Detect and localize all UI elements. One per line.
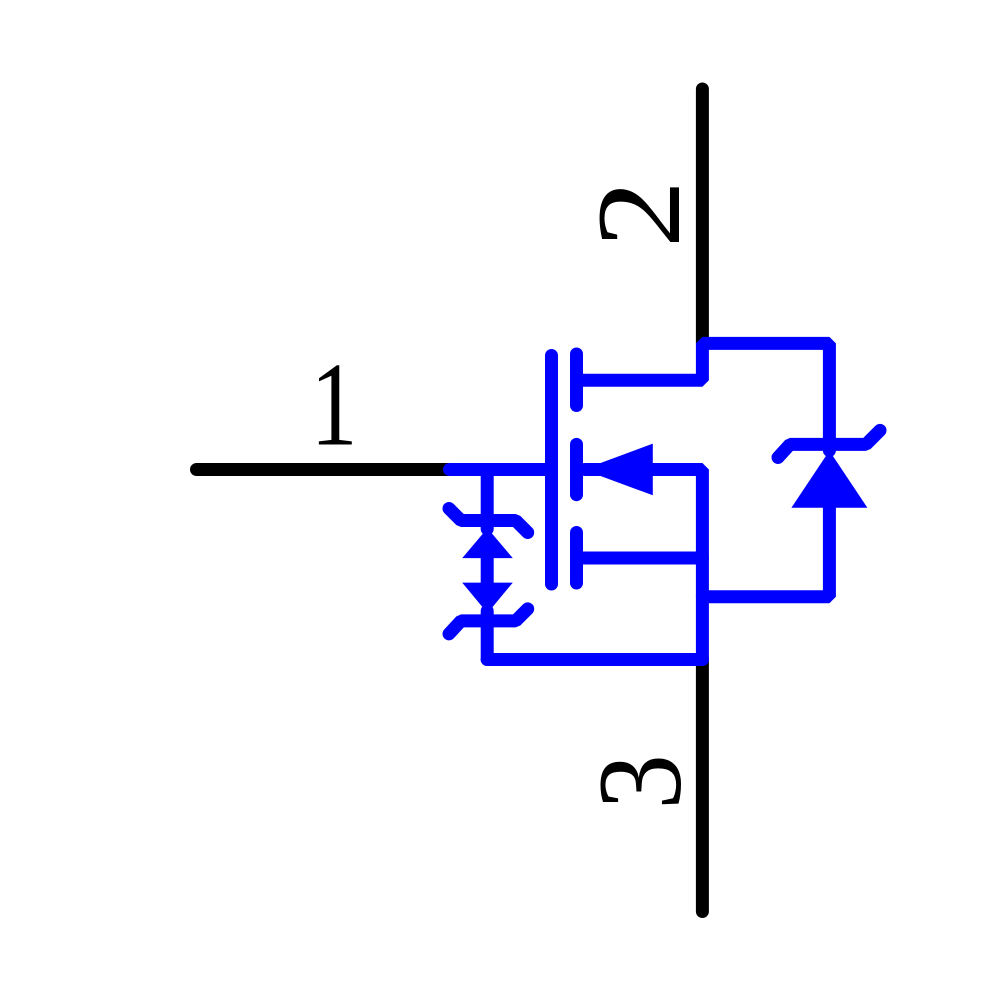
zener D2 anode triangle (points up)	[462, 528, 513, 558]
pin 1 wire (gate lead, black)	[197, 463, 453, 476]
svg-text:1: 1	[311, 339, 358, 472]
wire: gate tap down to upper protection zener	[481, 470, 494, 530]
pin 2 wire (drain lead, black)	[696, 89, 709, 343]
wire: source channel connection	[577, 552, 703, 565]
channel segment bulk (middle)	[570, 444, 583, 494]
pin 3 wire (source lead, black)	[696, 659, 709, 912]
zener D2 cathode bar (upper protection diode)	[449, 509, 528, 533]
svg-text:2: 2	[572, 180, 705, 248]
gate bar of MOSFET Q1	[545, 356, 558, 585]
wire: gate lead blue	[450, 463, 552, 476]
wire: bulk line and source vertical to pin 3	[585, 470, 702, 660]
wire: below lower zener to loop bottom	[481, 611, 494, 660]
wire: drain connection to pin 2 and body diode top	[577, 343, 830, 450]
svg-text:3: 3	[573, 754, 706, 809]
channel segment source (bottom)	[570, 533, 583, 584]
wire: body diode bottom to source node	[702, 506, 829, 597]
bulk arrow of MOSFET Q1	[583, 444, 653, 496]
channel segment drain (top)	[570, 354, 583, 406]
zener D3 cathode bar (lower protection diode)	[449, 609, 528, 634]
zener D3 anode triangle (points down)	[462, 583, 513, 614]
wire: bottom of gate protection loop	[487, 653, 702, 666]
body zener diode D1 cathode bar	[778, 430, 880, 457]
body zener diode D1 anode triangle	[791, 451, 867, 508]
wire: between protection zeners	[481, 556, 494, 585]
